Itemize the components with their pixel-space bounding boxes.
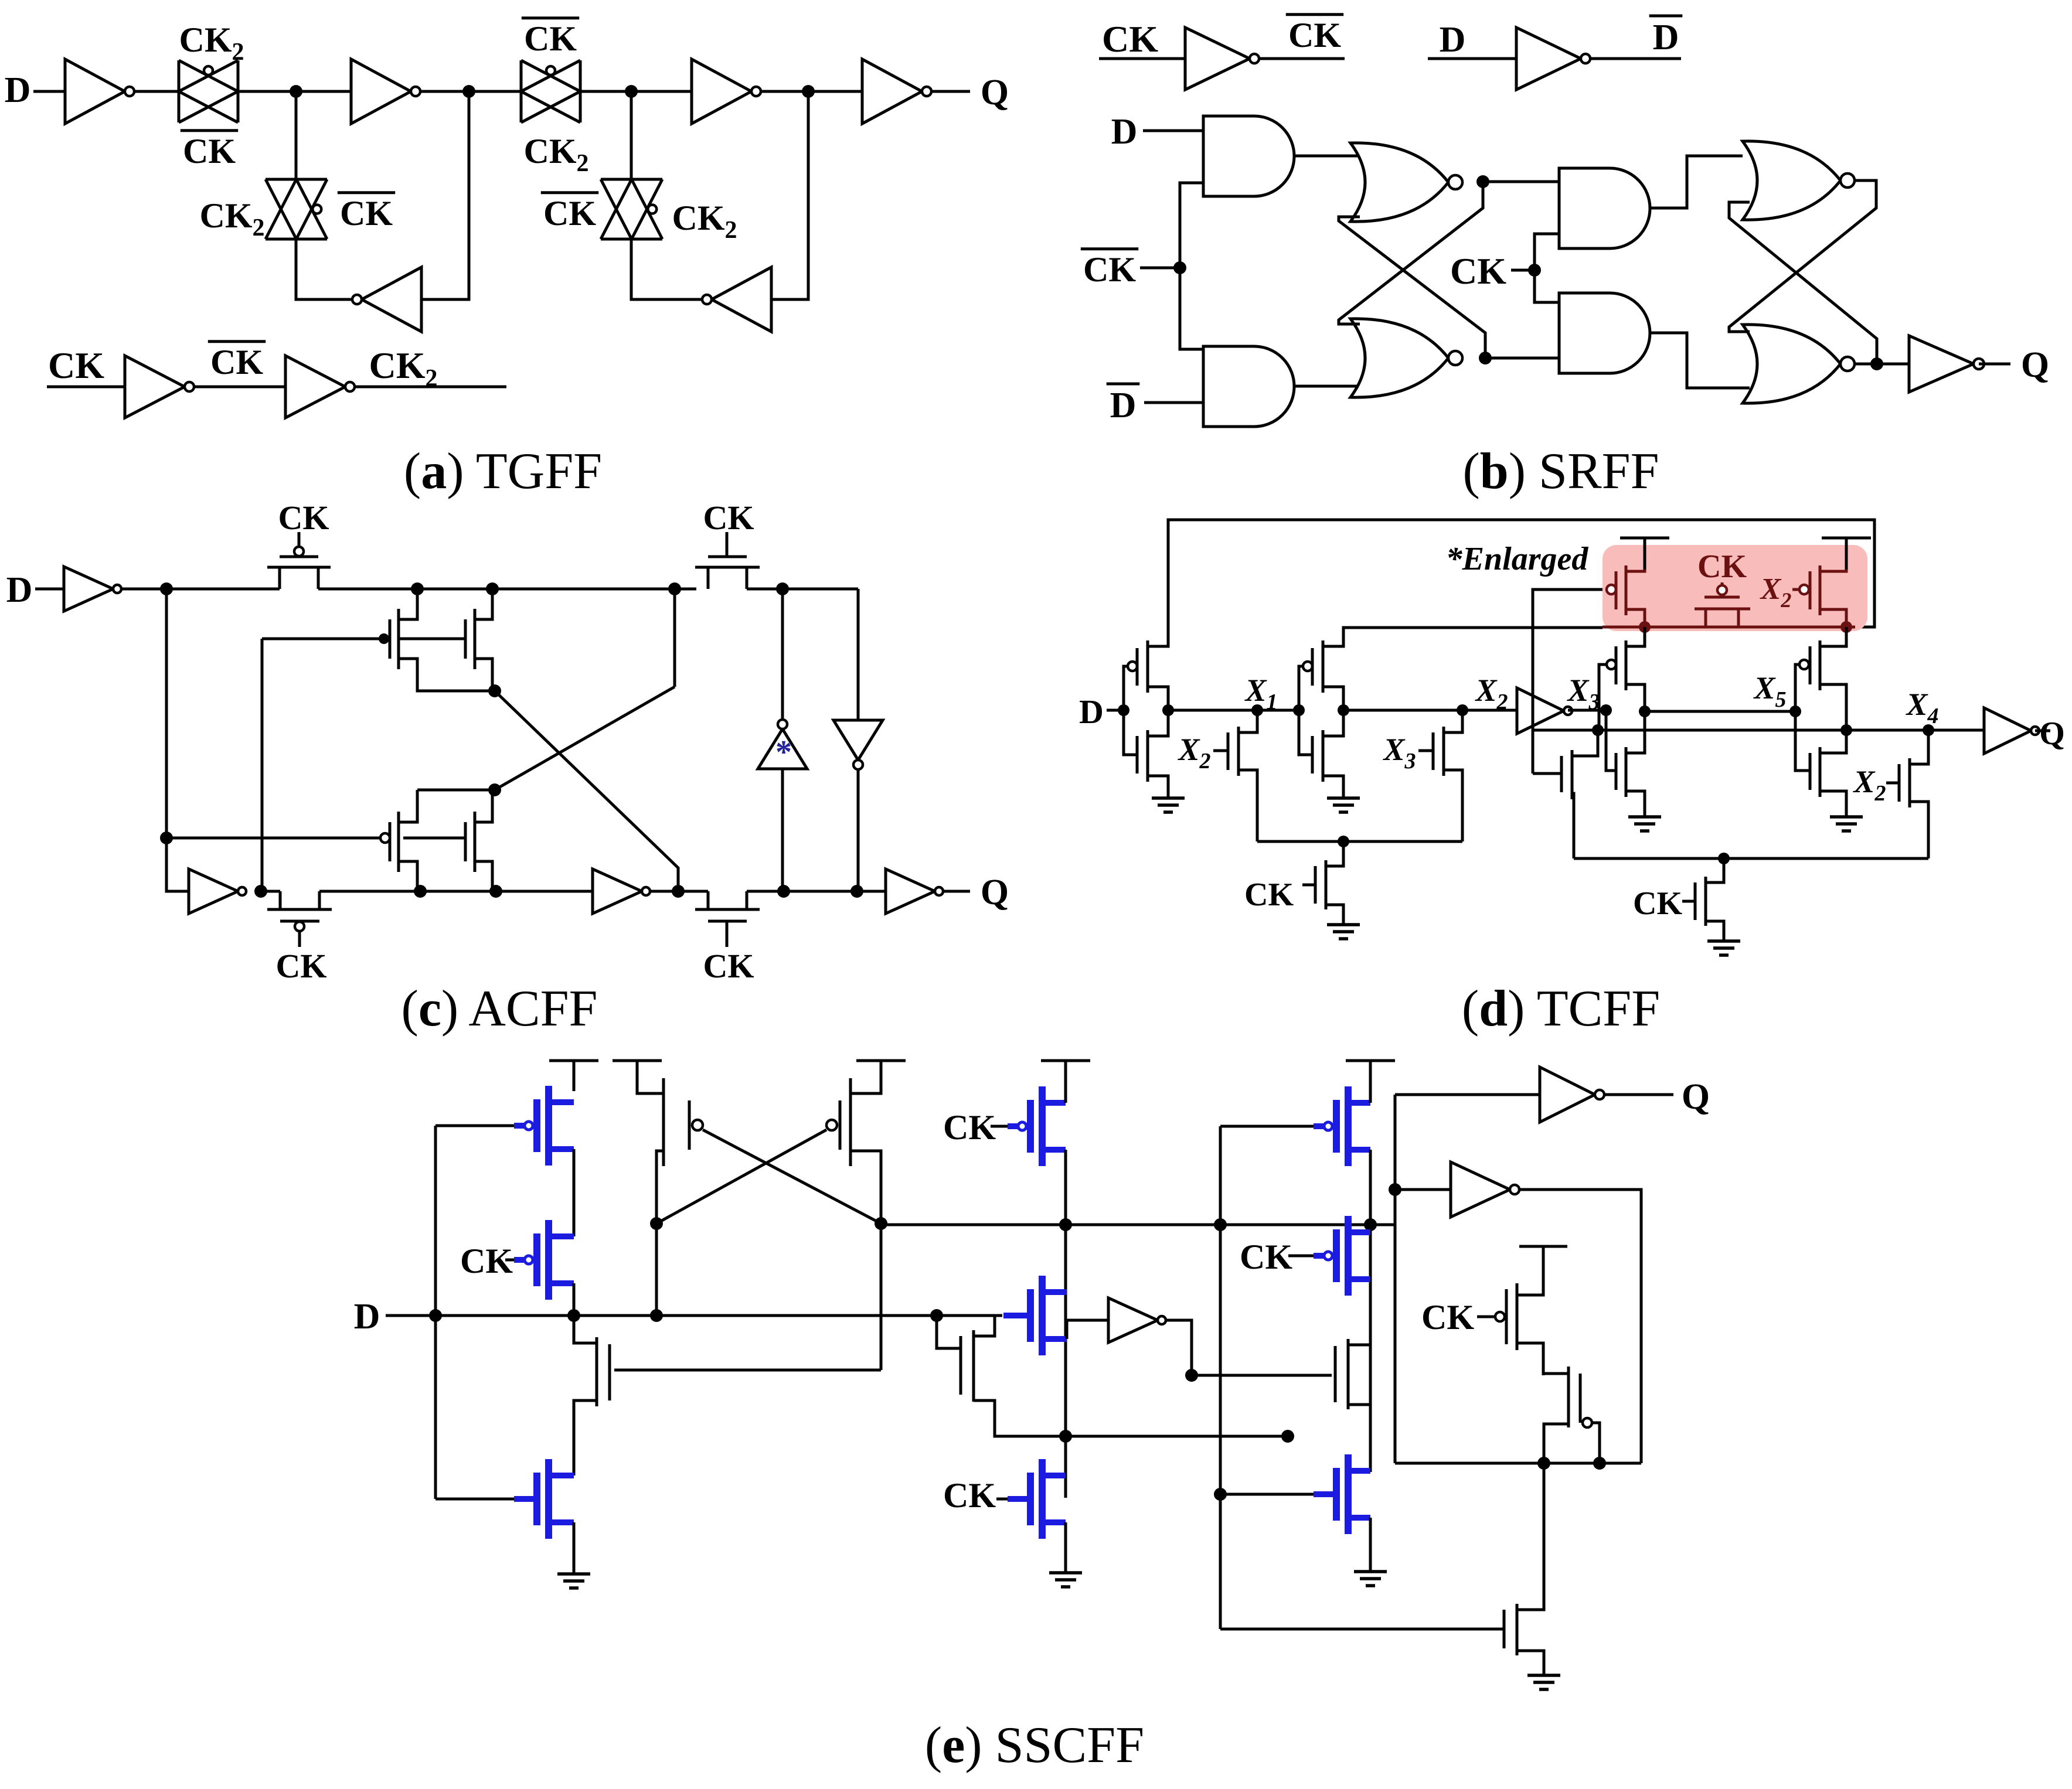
wire B9 to ground	[1369, 1518, 1372, 1570]
ground keeper left	[1628, 815, 1661, 819]
node CK junction	[1528, 264, 1541, 277]
svg-text:CK: CK	[543, 194, 596, 233]
svg-text:CK: CK	[1633, 885, 1682, 922]
inverter I4 output	[862, 59, 922, 124]
wire P2 to right	[319, 890, 593, 893]
wire CK to inverter I7	[47, 386, 125, 389]
inverter I1	[65, 59, 125, 124]
svg-text:CK: CK	[1421, 1298, 1474, 1337]
node n2 junction	[411, 582, 424, 595]
svg-text:CK: CK	[1450, 250, 1506, 292]
wire D to gates	[1107, 709, 1124, 712]
svg-text:CK: CK	[1697, 548, 1747, 585]
node n12 junction	[850, 885, 863, 898]
wire rail down right block	[1394, 1225, 1397, 1463]
pass transistor P3 bottom right CK	[695, 891, 708, 909]
inverter U1 CK	[1185, 28, 1250, 90]
node N4 output	[1870, 357, 1883, 370]
and gate A2	[1203, 346, 1294, 427]
wire gate rail right	[1219, 1126, 1222, 1629]
wire X4 to inverter	[1846, 729, 1984, 732]
wire D to inverter V1	[35, 588, 64, 591]
svg-text:(d) TCFF: (d) TCFF	[1462, 980, 1660, 1037]
svg-text:CK: CK	[703, 947, 754, 985]
wire T1 drain	[1148, 645, 1168, 646]
svg-text:Q: Q	[2021, 345, 2049, 385]
wire M3 drain up	[399, 790, 417, 822]
node X4 junction	[1923, 724, 1934, 736]
ground left (e)	[557, 1572, 590, 1576]
wire node C down to TG4	[630, 91, 633, 179]
wire M4 source down	[475, 861, 492, 891]
node A junction	[290, 85, 302, 98]
ground keeper right	[1830, 815, 1863, 819]
nor gate N3	[1743, 141, 1840, 220]
nmos R2 red middle CK	[1721, 582, 1724, 585]
wire E3 drain up	[974, 1316, 995, 1336]
wire X4 rail	[1533, 729, 1846, 732]
wire D main	[436, 1314, 1002, 1317]
wire T1 source to node X1 rail	[1148, 687, 1168, 710]
svg-text:Q: Q	[981, 73, 1009, 113]
wire U1 out	[1259, 57, 1345, 60]
node mid column j	[1059, 1430, 1072, 1443]
wire L2 drain to vdd	[850, 1061, 881, 1093]
wire CK junction to A3 A4	[1535, 234, 1559, 302]
wire F3 source down	[1517, 1651, 1544, 1674]
wire M1 drain up	[399, 589, 417, 619]
vdd T latch right	[856, 1059, 906, 1062]
svg-text:D: D	[1653, 18, 1679, 57]
node gate rail j5	[1214, 1488, 1227, 1501]
wire A2 out to NOR2	[1294, 385, 1359, 388]
nmos B9 blue right bottom	[1225, 1493, 1314, 1496]
wire Y1 out down	[1166, 1320, 1192, 1375]
wire CK2 node	[355, 386, 506, 389]
wire N2 out to AND4	[1485, 357, 1559, 360]
node X2b junction	[1457, 704, 1468, 716]
inverter V4 output (c)	[886, 869, 935, 914]
wire F2 top	[1543, 1374, 1569, 1375]
ground CK tail1	[1327, 923, 1360, 926]
inverter U3 output (b)	[1909, 336, 1974, 392]
wire M1 source down	[399, 659, 495, 691]
wire bottom nmos gate	[1220, 1628, 1504, 1631]
wire latch cross 1	[656, 1130, 826, 1224]
wire latch cross 2	[703, 1130, 881, 1224]
wire left rail down	[166, 589, 189, 891]
node red right junction	[1840, 621, 1852, 633]
node stage1 out junction	[1162, 704, 1174, 716]
node X1 junction	[1251, 704, 1263, 716]
wire D gate rail	[434, 1126, 437, 1499]
inverter Y2 Q output	[1540, 1067, 1595, 1122]
wire X5 node	[1645, 710, 1795, 713]
svg-text:CK: CK	[183, 132, 236, 171]
wire T7 drain up	[1626, 627, 1645, 646]
wire M2 drain up	[475, 589, 492, 619]
node n5 junction	[488, 783, 501, 796]
wire A4 out to NOR4	[1650, 333, 1750, 388]
node latch left bottom	[650, 1309, 663, 1322]
pink highlight box	[1603, 545, 1867, 631]
wire B4 to vdd	[1064, 1061, 1067, 1103]
vdd T latch left	[613, 1059, 662, 1062]
node n3 junction	[486, 582, 499, 595]
svg-text:(a) TGFF: (a) TGFF	[404, 443, 602, 500]
wire bottom right block	[1395, 1462, 1641, 1465]
pmos B7 blue right top	[1220, 1125, 1314, 1128]
svg-text:CK: CK	[1288, 16, 1341, 54]
and gate A3	[1559, 168, 1650, 248]
wire latch right down	[880, 1224, 883, 1370]
svg-text:CK: CK	[1240, 1238, 1292, 1276]
node D wire mid	[930, 1309, 943, 1322]
node rail j1	[1059, 1218, 1072, 1231]
pmos L1 latch left	[662, 1078, 665, 1166]
wire cross diagonal 2	[495, 687, 675, 790]
node n1 junction	[160, 582, 173, 595]
svg-text:CK: CK	[943, 1108, 996, 1147]
node X5 right junction	[1789, 706, 1801, 717]
svg-text:D: D	[1079, 693, 1104, 731]
svg-text:CK: CK	[340, 194, 393, 233]
node D junction	[1118, 704, 1129, 716]
pmos T7 keeper left	[1607, 660, 1616, 669]
wire F1 drain to vdd	[1517, 1246, 1543, 1295]
wire right branch down	[857, 589, 860, 720]
wire E1 source	[574, 1400, 597, 1476]
pmos F1 CK right block	[1477, 1316, 1494, 1318]
wire CK rail stage1	[1257, 840, 1462, 843]
wire right column	[1369, 1150, 1372, 1472]
pmos R1 red left	[1607, 585, 1616, 594]
wire node A down to TG3	[295, 91, 298, 179]
node CK rail2 junction	[1718, 853, 1730, 864]
red node wire	[1603, 626, 1855, 629]
node rail j3	[1364, 1218, 1377, 1231]
wire D to node	[386, 1314, 436, 1317]
inverter I8 clock	[285, 356, 345, 418]
node bottom wire j1	[1537, 1457, 1550, 1470]
inverter I3	[692, 59, 751, 124]
pmos T10 right	[1799, 660, 1809, 669]
inverter W1 X2 to X3	[1517, 688, 1564, 734]
wire junction to AND1 AND2	[1180, 183, 1203, 349]
pmos B4 blue mid CK	[991, 1125, 1008, 1128]
svg-text:(b) SRFF: (b) SRFF	[1462, 443, 1659, 500]
vdd T left red	[1620, 537, 1669, 540]
inverter V3 bottom	[593, 869, 642, 914]
wire M3 source down	[399, 861, 417, 891]
node X5 left junction	[1639, 706, 1651, 717]
wire X2 node	[1343, 709, 1517, 712]
nor gate N4	[1743, 325, 1840, 403]
svg-text:CK: CK	[943, 1476, 996, 1515]
vdd T right red	[1822, 537, 1871, 540]
wire I5 to node B	[421, 91, 469, 299]
wire TG1 to node A	[238, 90, 351, 93]
node B junction	[462, 85, 475, 98]
wire Q inverter input	[1395, 1093, 1540, 1096]
svg-text:D: D	[1110, 386, 1137, 425]
wire V5 to bottom	[781, 769, 784, 891]
svg-text:CK: CK	[524, 19, 577, 58]
wire keeper star branch	[781, 589, 784, 720]
vdd T right block	[1519, 1245, 1567, 1248]
transistor M2 upper right	[474, 609, 477, 669]
svg-text:CK: CK	[703, 499, 754, 537]
wire B7 to vdd	[1369, 1061, 1372, 1103]
wire T10 source down	[1820, 684, 1846, 730]
wire L2 source down	[850, 1151, 881, 1224]
wire D to inverter U2	[1428, 57, 1516, 60]
wire F3 drain up	[1517, 1463, 1544, 1610]
wire T10 drain up	[1820, 627, 1846, 646]
wire M3 gate with bubble	[170, 837, 380, 840]
wire D to inverter	[33, 90, 65, 93]
wire mid column	[1064, 1150, 1067, 1498]
svg-text:CK: CK	[460, 1242, 513, 1280]
svg-text:D: D	[5, 70, 31, 110]
node E junction	[802, 85, 815, 98]
wire TG2 to node C	[580, 90, 692, 93]
wire T4 source	[1323, 687, 1343, 710]
node mid row j4	[1281, 1430, 1294, 1443]
node n9 junction	[489, 885, 502, 898]
wire E3 source down	[974, 1400, 1066, 1436]
svg-text:CK: CK	[210, 343, 263, 381]
node Y1 out junction	[1185, 1369, 1198, 1382]
wire P4 to right corner	[747, 588, 858, 591]
node stage2 mid junction	[1338, 704, 1349, 716]
wire to Q (e)	[1604, 1093, 1673, 1096]
node n11 junction	[777, 885, 790, 898]
svg-text:Q: Q	[2039, 715, 2065, 752]
wire B1 to B2	[573, 1149, 576, 1236]
keeper inverter V5 star up	[758, 729, 807, 769]
svg-text:CK: CK	[1244, 877, 1294, 913]
vdd T mid-right	[1346, 1059, 1395, 1062]
svg-text:D: D	[6, 570, 33, 610]
ground stage2	[1327, 796, 1360, 800]
wire M2 source down	[475, 659, 492, 691]
wire T10 gate from X5	[1795, 665, 1799, 711]
and gate A1	[1203, 116, 1294, 196]
wire n5 horizontal	[417, 789, 495, 792]
transistor M3 lower left	[397, 812, 400, 872]
wire E2 drain up	[1348, 1225, 1370, 1345]
ground mid (e)	[1049, 1571, 1082, 1575]
wire B6 to ground	[1064, 1522, 1067, 1572]
wire N3 cross to N4	[1729, 180, 1876, 332]
wire P3 to inverter V4	[747, 890, 886, 893]
wire to Q	[931, 90, 970, 93]
transmission gate TG1	[178, 60, 181, 122]
svg-text:*: *	[775, 734, 792, 771]
wire cross diagonal 1	[495, 691, 678, 891]
pmos B1 blue D gate	[436, 1124, 514, 1127]
wire M4 drain up	[475, 790, 492, 822]
pmos R3 red right	[1792, 588, 1799, 591]
wire T7 gate to X4 rail	[1599, 665, 1607, 730]
node gate junction on left rail	[160, 832, 173, 844]
wire to Q (d)	[2035, 730, 2050, 732]
svg-text:(c) ACFF: (c) ACFF	[402, 980, 598, 1037]
svg-text:CK: CK	[1102, 18, 1158, 60]
pmos B5 blue mid pass	[1039, 1276, 1046, 1355]
node X3 junction	[1600, 704, 1612, 716]
nmos T14 CK tail stage2	[1682, 900, 1695, 903]
wire CKbar node	[194, 386, 285, 389]
svg-text:*Enlarged: *Enlarged	[1446, 541, 1589, 577]
wire TG3 to feedback inverter I5	[296, 239, 352, 299]
wire latch left to D wire	[655, 1224, 658, 1316]
node CKbar junction	[1173, 261, 1186, 274]
wire N4 cross to N3	[1729, 202, 1877, 364]
nmos T13 CK tail stage1	[1302, 884, 1315, 887]
wire CKbar to junction	[1140, 267, 1180, 270]
inverter I2	[351, 59, 411, 124]
svg-text:D: D	[354, 1297, 380, 1337]
wire M1 gate from left	[262, 638, 387, 640]
top VDD rail	[1168, 520, 1874, 645]
wire to inverter Y3	[1395, 1188, 1451, 1191]
svg-text:(e) SSCFF: (e) SSCFF	[925, 1717, 1144, 1774]
vdd T mid	[1041, 1059, 1090, 1062]
wire L1 drain to vdd	[637, 1061, 664, 1093]
node blue stack junction	[567, 1309, 580, 1322]
svg-text:D: D	[1440, 20, 1466, 60]
transmission gate TG3 vertical	[266, 178, 327, 181]
wire D to AND1	[1143, 130, 1203, 132]
inverter V2 bottom left	[189, 869, 238, 914]
wire I3 to node E	[761, 90, 862, 93]
wire I6 to node E	[771, 91, 808, 299]
node n6 junction	[254, 885, 267, 898]
svg-text:CK: CK	[278, 499, 329, 537]
wire mid gate rail down	[261, 639, 264, 891]
node red left junction	[1639, 621, 1651, 633]
svg-text:Q: Q	[1682, 1077, 1710, 1117]
wire M1 to M2 gate	[399, 638, 465, 640]
node n4 junction	[488, 684, 501, 697]
wire I1 to TG1	[134, 90, 179, 93]
node C junction	[625, 85, 638, 98]
node n13 junction	[776, 582, 789, 595]
wire node n8 down	[673, 589, 676, 687]
wire Y3 out	[1519, 1190, 1641, 1463]
wire B3 to ground	[573, 1522, 576, 1573]
wire E1 drain	[574, 1316, 597, 1343]
nmos F3 bottom right	[1503, 1610, 1506, 1648]
pass transistor P4 top right CK	[695, 566, 696, 569]
inverter U2 D	[1516, 28, 1581, 90]
wire X3 node	[1568, 709, 1606, 712]
node X4 mid junction	[1840, 724, 1852, 736]
wire to Q (c)	[943, 890, 970, 893]
pass transistor P1 top CK	[267, 567, 280, 589]
nmos E2 mid-right black	[1334, 1346, 1337, 1402]
wire latch out rail	[881, 1224, 1395, 1226]
wire B2 to D node	[573, 1283, 576, 1316]
wire F2 source down	[1544, 1424, 1569, 1463]
pmos T1 input stage1	[1124, 666, 1128, 710]
nmos E1 black mid-left	[596, 1337, 598, 1406]
node n7 junction	[414, 885, 427, 898]
wire mid row to j4	[1066, 1435, 1288, 1438]
node n8 junction	[668, 582, 681, 595]
node latch left junction	[650, 1217, 663, 1230]
pmos L2 latch right	[849, 1078, 852, 1166]
nmos T11 right	[1795, 711, 1810, 771]
wire V1 to node n1	[121, 588, 280, 591]
wire A3 out to NOR3	[1650, 156, 1743, 208]
pmos F2 right block	[1567, 1367, 1570, 1427]
wire X1 node	[1168, 709, 1299, 712]
svg-text:Q: Q	[981, 873, 1009, 912]
wire M3 to M4 gate	[403, 837, 465, 840]
feedback inverter I6	[712, 267, 771, 332]
pmos T4 stage2	[1299, 666, 1303, 710]
inverter Y1 mid	[1108, 1298, 1158, 1342]
nmos T8 below X5 left	[1606, 730, 1616, 771]
ground bottom right (e)	[1527, 1674, 1560, 1677]
inverter W2 output (d)	[1984, 708, 2031, 754]
wire X3 gate rail	[1533, 589, 1607, 730]
wire N2 cross to N1 input	[1339, 217, 1485, 358]
node X4 rail left junction	[1592, 724, 1604, 736]
wire N4 to inverter U3	[1855, 363, 1909, 366]
transistor M1 upper left	[397, 609, 400, 669]
wire E2 source down	[1348, 1405, 1370, 1472]
wire V3 to P3	[650, 890, 708, 893]
pmos B2 blue CK	[505, 1259, 514, 1262]
nmos T5 stage2	[1299, 710, 1312, 755]
feedback inverter I5	[362, 267, 421, 332]
wire V6 to bottom	[857, 769, 860, 891]
svg-text:CK: CK	[48, 345, 104, 386]
inverter V1	[64, 567, 113, 611]
node latch right junction	[875, 1217, 887, 1230]
wire N1 cross to N2 input	[1339, 182, 1483, 324]
svg-text:CK: CK	[1083, 250, 1136, 289]
node N2 output	[1479, 352, 1492, 364]
wire L1 source down	[656, 1151, 664, 1224]
wire F2 gate to feedback	[1592, 1423, 1600, 1463]
transistor M4 lower right	[474, 812, 477, 872]
keeper inverter V6 down	[833, 720, 883, 760]
wire N1 out to AND3	[1483, 180, 1559, 183]
nmos B6 blue mid bottom CK	[996, 1498, 1008, 1501]
node bottom wire j2	[1593, 1457, 1606, 1470]
and gate A4	[1559, 293, 1650, 373]
wire B5 source to inverter	[1067, 1320, 1108, 1339]
wire E1 gate long	[614, 1369, 881, 1372]
pmos B8 blue right CK	[1288, 1255, 1314, 1258]
node N1 output	[1476, 175, 1489, 188]
inverter Y3 feedback	[1451, 1162, 1510, 1217]
node rail j2	[1214, 1218, 1227, 1231]
wire F1 source down	[1517, 1343, 1543, 1375]
wire T7 source down	[1626, 684, 1645, 711]
ground CK tail2	[1707, 939, 1740, 943]
wire Y1 to E2 gate	[1192, 1374, 1332, 1377]
node stage2 in junction	[1293, 704, 1305, 716]
nmos B3 blue bottom left	[436, 1498, 514, 1501]
inverter I7 clock	[125, 356, 185, 418]
wire CK rail stage2	[1574, 857, 1928, 860]
